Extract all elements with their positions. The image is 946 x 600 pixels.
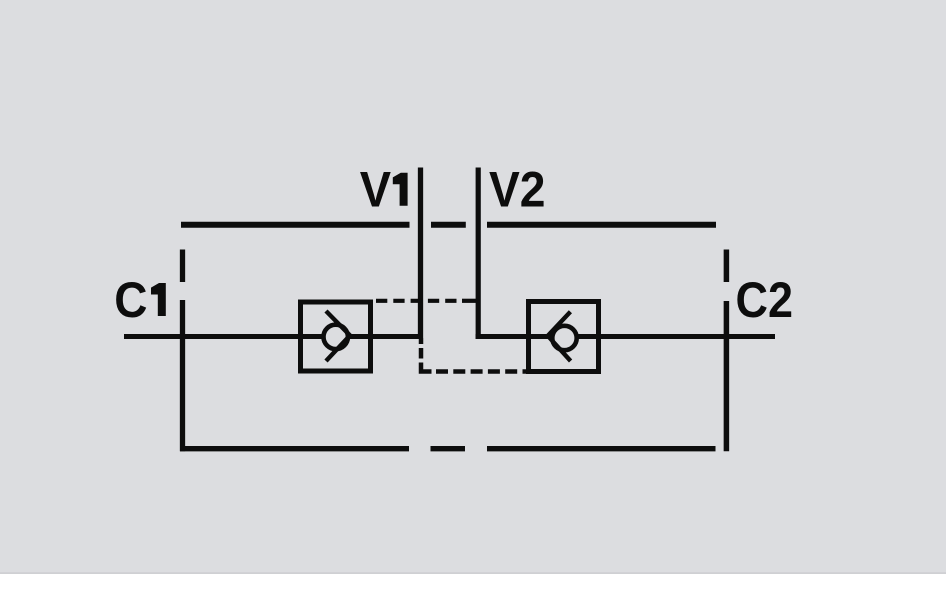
check valve box right [529, 302, 599, 372]
wire V2 vertical line [476, 168, 481, 340]
svg-text:C2: C2 [736, 272, 794, 328]
label V1 digit 1 [393, 173, 408, 206]
enclosure bottom-left dashed segment [180, 446, 409, 451]
enclosure top-right dashed segment [487, 222, 716, 228]
wire C1 port line [124, 334, 423, 339]
enclosure bottom-right dashed segment [487, 446, 716, 451]
pilot line lower corner [421, 363, 432, 372]
label C1 digit 1 [151, 283, 166, 316]
enclosure bottom middle dash [431, 446, 466, 451]
enclosure right long segment [724, 301, 730, 451]
pilot line upper final dash touching V2 [462, 299, 476, 303]
pilot line lower horizontal dashed (to right valve) [436, 369, 527, 374]
enclosure left short dash [180, 250, 185, 283]
svg-text:V2: V2 [489, 161, 546, 217]
wire C2 port line [476, 334, 775, 339]
check valve box left [301, 302, 371, 371]
check valve seat left [326, 311, 350, 361]
enclosure right short dash [724, 250, 730, 283]
bottom edge shadow [0, 572, 946, 574]
pilot line lower vertical stub [419, 339, 424, 345]
pilot line upper dashed (to V2) [376, 299, 460, 303]
check valve seat right [548, 312, 571, 361]
enclosure left long segment [180, 300, 185, 451]
check valve ball right [552, 326, 576, 350]
svg-text:C: C [114, 272, 147, 328]
wire V1 vertical line [418, 168, 423, 340]
enclosure top middle dash [431, 222, 466, 228]
check valve ball left [324, 325, 348, 349]
svg-text:V: V [360, 161, 392, 217]
pilot line lower vertical dash [419, 348, 424, 359]
enclosure top-left dashed segment [181, 222, 410, 228]
